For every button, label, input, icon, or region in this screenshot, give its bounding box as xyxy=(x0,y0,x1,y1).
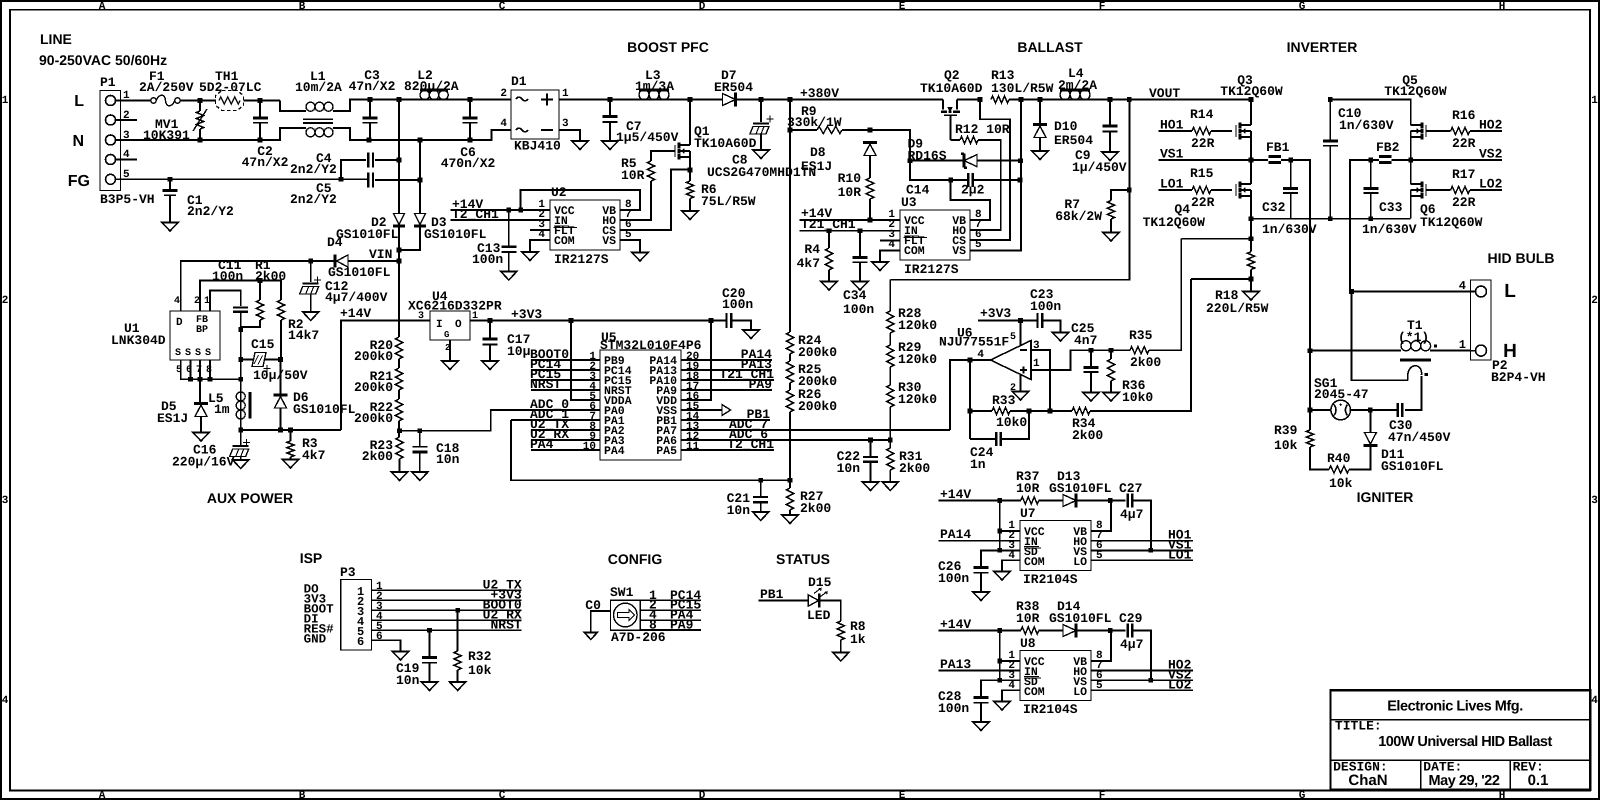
fuse F1 xyxy=(151,98,156,103)
resistor R15 xyxy=(1192,186,1211,193)
ic U5 STM32L010F4P6 box xyxy=(600,350,681,460)
phase dot T1 secondary xyxy=(1425,373,1428,376)
wire R4 top lead xyxy=(828,231,830,248)
junction C23 xyxy=(1018,318,1023,323)
wire R9 leads xyxy=(790,129,817,131)
svg-text:10R: 10R xyxy=(1016,611,1040,626)
transistor Q4 TK12Q60W xyxy=(1235,184,1237,196)
wire U7 VCC vertical xyxy=(981,501,1000,568)
svg-text:GS1010FL: GS1010FL xyxy=(293,402,356,417)
svg-text:L: L xyxy=(74,93,84,110)
svg-text:I: I xyxy=(436,319,443,331)
svg-text:1n/630V: 1n/630V xyxy=(1362,222,1417,237)
wire VIN to D4 xyxy=(348,260,399,262)
wire LO2 to R17 xyxy=(1470,189,1502,191)
svg-text:R33: R33 xyxy=(992,393,1016,408)
wire U2 FLT stub xyxy=(530,229,550,231)
svg-text:B: B xyxy=(299,790,306,800)
junction L5 top rail xyxy=(238,377,243,382)
capacitor C26 xyxy=(974,566,989,569)
wire VIN divider vertical xyxy=(398,261,400,332)
svg-text:10k0: 10k0 xyxy=(996,415,1027,430)
connector P1 pin 4 circle xyxy=(106,155,116,165)
ground at R31 xyxy=(882,482,898,491)
wire VS1 to T1 primary xyxy=(1310,350,1401,352)
svg-text:200k0: 200k0 xyxy=(354,349,393,364)
wire U6 plus input xyxy=(1031,350,1091,370)
svg-text:May 29, '22: May 29, '22 xyxy=(1428,773,1499,789)
wire VB to U3 pin8 xyxy=(951,180,990,220)
svg-text:COM: COM xyxy=(904,245,925,258)
svg-text:G: G xyxy=(444,330,449,340)
svg-text:200k0: 200k0 xyxy=(798,399,837,414)
capacitor C34 xyxy=(853,256,868,259)
diode D8 xyxy=(863,141,877,144)
wire node399 vertical L-to-D2 xyxy=(398,100,400,214)
wire R16 to HO2 xyxy=(1470,130,1502,132)
junction C14 left xyxy=(948,178,953,183)
resistor R38 xyxy=(1021,627,1039,634)
wire U8 pin1 stub xyxy=(1000,660,1020,662)
junction R7 tap xyxy=(1127,188,1132,193)
svg-text:C27: C27 xyxy=(1119,481,1142,496)
capacitor C30 xyxy=(1398,403,1403,417)
wire ADC_0 tap to U5 xyxy=(420,410,600,431)
wire SW1 common to ground xyxy=(591,611,611,633)
resistor R40 xyxy=(1329,466,1349,473)
wire plus node to R36 xyxy=(1091,349,1111,351)
wire R33 right xyxy=(1010,410,1050,412)
wire C34 stem xyxy=(859,231,861,257)
wire VB-VS vertical x1020 xyxy=(970,100,1021,251)
wire +14V U8 rail xyxy=(939,630,1021,632)
ground at C1 xyxy=(162,223,178,232)
svg-text:200k0: 200k0 xyxy=(798,345,837,360)
svg-text:GS1010FL: GS1010FL xyxy=(328,265,391,280)
wire U5 pin13 ADC_7 xyxy=(681,429,950,431)
wire C14 left lead xyxy=(951,179,969,181)
svg-text:UCS2G470MHD1TN: UCS2G470MHD1TN xyxy=(707,165,816,180)
wire R22-R23 node xyxy=(398,421,400,437)
wire Q5 source xyxy=(1410,137,1412,160)
svg-text:10k: 10k xyxy=(1274,438,1298,453)
wire U7 HO HO1 xyxy=(1091,540,1193,542)
svg-text:LO1: LO1 xyxy=(1168,548,1192,563)
wire C27 right to VS1 xyxy=(1132,501,1151,551)
svg-text:U3: U3 xyxy=(901,195,917,210)
svg-text:1k: 1k xyxy=(850,632,866,647)
svg-text:GS1010FL: GS1010FL xyxy=(1049,611,1112,626)
svg-text:D1: D1 xyxy=(511,74,527,89)
svg-text:2k00: 2k00 xyxy=(1130,355,1161,370)
wire P1 pin2 stub xyxy=(121,119,138,121)
wire R40 to D11 xyxy=(1349,446,1370,470)
diode D2 xyxy=(393,225,405,228)
resistor R13 xyxy=(991,96,1009,103)
wire LO1 to R15 xyxy=(1159,189,1193,191)
junction 3V3 at C20 xyxy=(709,318,714,323)
ic U4 XC6216 box xyxy=(430,311,470,340)
capacitor C24 xyxy=(996,432,1001,446)
wire C29 right to VS2 xyxy=(1132,631,1151,681)
svg-text:C32: C32 xyxy=(1262,200,1286,215)
svg-text:P3: P3 xyxy=(340,565,356,580)
svg-text:KBJ410: KBJ410 xyxy=(514,139,561,154)
svg-text:22R: 22R xyxy=(1452,136,1476,151)
wire R35 right up xyxy=(1149,239,1181,351)
junction C19 on NRST xyxy=(427,628,432,633)
transistor Q2 TK10A60D xyxy=(943,100,957,110)
junction N rail at C3 xyxy=(367,138,372,143)
svg-text:ChaN: ChaN xyxy=(1348,772,1387,789)
svg-text:1μ/450V: 1μ/450V xyxy=(1072,160,1127,175)
svg-text:GS1010FL: GS1010FL xyxy=(336,227,399,242)
ground at C25 xyxy=(1083,393,1099,402)
ic U2 IR2127S box xyxy=(550,200,620,250)
diode D13 xyxy=(1063,495,1076,507)
wire C5 right xyxy=(375,179,420,181)
svg-text:1: 1 xyxy=(1591,95,1598,107)
svg-text:PA9: PA9 xyxy=(749,377,773,392)
resistor R39 xyxy=(1306,430,1313,447)
junction rail Q3 drain xyxy=(1249,97,1254,102)
ic U1 LNK304D box xyxy=(170,311,220,360)
ground at D10 xyxy=(1032,151,1048,160)
svg-text:PA4: PA4 xyxy=(530,437,554,452)
svg-text:IR2104S: IR2104S xyxy=(1023,572,1078,587)
svg-text:HO2: HO2 xyxy=(1479,118,1503,133)
resistor R37 xyxy=(1021,497,1039,504)
wire U5 pin18 T21_CH1 xyxy=(681,379,774,381)
wire U8 VB pin8 xyxy=(1091,631,1111,662)
svg-text:0.1: 0.1 xyxy=(1528,772,1549,789)
wire Q3 source xyxy=(1250,137,1252,160)
wire FB2 left xyxy=(1350,160,1379,292)
junction L terminal node xyxy=(1349,289,1354,294)
ground at C9 xyxy=(1102,152,1118,161)
svg-text:COM: COM xyxy=(1024,556,1045,569)
svg-text:R4: R4 xyxy=(804,242,820,257)
svg-text:ES1J: ES1J xyxy=(157,411,188,426)
wire R31 ground lead xyxy=(889,470,891,482)
wire Q1 gate to R5 xyxy=(651,151,675,161)
wire VS2 left to FB2 xyxy=(1392,159,1411,161)
ground at R23 xyxy=(392,472,408,481)
junction aux at D6 xyxy=(278,428,283,433)
capacitor C12 xyxy=(303,282,319,284)
svg-text:TK12Q60W: TK12Q60W xyxy=(1220,84,1283,99)
capacitor C14 xyxy=(968,173,973,187)
wire U2 COM to ground xyxy=(530,240,550,252)
junction R1 top xyxy=(258,278,263,283)
svg-text:1: 1 xyxy=(2,95,9,107)
capacitor C25 xyxy=(1084,366,1099,369)
svg-text:NRST: NRST xyxy=(530,377,561,392)
svg-text:470n/X2: 470n/X2 xyxy=(441,156,496,171)
wire D1 pin3 to ground xyxy=(559,130,580,141)
wire U6 minus input xyxy=(1031,350,1050,411)
wire U5 pin12 ADC_6 xyxy=(681,439,890,441)
wire inverter bottom rail xyxy=(1251,218,1411,220)
junction VS1 node xyxy=(1249,158,1254,163)
svg-text:2n2/Y2: 2n2/Y2 xyxy=(290,162,337,177)
wire R13 right xyxy=(1009,99,1060,101)
junction ADC_6 at R30 xyxy=(888,438,893,443)
junction C34 node xyxy=(858,228,863,233)
junction VOUT at C9 xyxy=(1108,97,1113,102)
diode D3 xyxy=(414,225,426,228)
wire D11 anode xyxy=(1369,410,1371,433)
junction R18 bottom xyxy=(1249,277,1254,282)
capacitor C33 xyxy=(1363,187,1378,190)
wire Q1 source xyxy=(689,157,691,170)
wire R26 to tap xyxy=(789,412,791,488)
wire FG rail xyxy=(121,178,369,180)
ground at C21 xyxy=(753,512,769,521)
ground at R36 xyxy=(1103,393,1119,402)
svg-text:LED: LED xyxy=(807,608,831,623)
capacitor C2 xyxy=(253,117,268,120)
svg-text:4n7: 4n7 xyxy=(1074,333,1097,348)
connector P1 pin 3 circle xyxy=(106,135,116,145)
junction R32 on BOOT0 xyxy=(455,608,460,613)
resistor R35 xyxy=(1130,347,1149,354)
wire FB1 right xyxy=(1281,160,1310,351)
zener diode D9 xyxy=(961,152,967,169)
junction ADC_6 at C22 xyxy=(868,438,873,443)
capacitor C15 xyxy=(241,359,281,361)
wire C12 stem xyxy=(310,261,312,282)
svg-text:COM: COM xyxy=(1024,686,1045,699)
wire U7 IN PA14 xyxy=(939,540,1021,542)
wire U8 pin3 stub xyxy=(1000,679,1020,681)
svg-text:2k00: 2k00 xyxy=(362,449,393,464)
junction R4 node xyxy=(827,228,832,233)
svg-text:1: 1 xyxy=(562,88,569,100)
wire R21-R22 xyxy=(398,390,400,399)
svg-text:TK10A60D: TK10A60D xyxy=(920,81,983,96)
ground at R6 xyxy=(682,211,698,220)
wire +380V sense vertical x790 xyxy=(789,100,791,333)
wire R32 ground lead xyxy=(457,670,459,682)
svg-text:FG: FG xyxy=(68,173,90,190)
wire U6 gnd stub xyxy=(1020,375,1022,392)
wire CS sense path xyxy=(970,100,1010,241)
wire VS1 node down xyxy=(1309,351,1311,430)
wire R24-R25 xyxy=(789,354,791,361)
wire D10 top lead xyxy=(1039,100,1041,125)
resistor R18 xyxy=(1247,252,1254,270)
svg-text:130L/R5W: 130L/R5W xyxy=(991,81,1054,96)
ground at R8 xyxy=(833,653,849,662)
wire D8 to R10 xyxy=(869,156,871,179)
wire U8 VCC vertical xyxy=(981,631,1000,698)
svg-text:1n/630V: 1n/630V xyxy=(1339,118,1394,133)
svg-text:VS: VS xyxy=(952,245,966,258)
svg-text:2: 2 xyxy=(194,296,200,307)
ground at C19 xyxy=(422,682,438,691)
wire +3V3 to C23 xyxy=(978,320,1037,322)
wire N rail P1 to L1 xyxy=(121,128,307,140)
svg-text:LO2: LO2 xyxy=(1168,678,1192,693)
capacitor C27 xyxy=(1128,494,1133,508)
svg-text:100n: 100n xyxy=(212,269,243,284)
svg-text:R39: R39 xyxy=(1274,423,1298,438)
svg-text:C33: C33 xyxy=(1379,200,1403,215)
transformer T1 secondary xyxy=(1408,366,1422,381)
junction VB top node xyxy=(868,128,873,133)
svg-text:5: 5 xyxy=(975,239,982,251)
wire D10 anode to ground xyxy=(1039,138,1041,152)
wire L node to T1 secondary top xyxy=(1352,292,1409,381)
wire LED to R8 xyxy=(821,601,841,622)
junction pin6 rail xyxy=(188,377,193,382)
capacitor C18 xyxy=(412,446,427,448)
wire L3 to D7 xyxy=(669,99,723,101)
svg-text:U2: U2 xyxy=(551,185,567,200)
ground at U6 xyxy=(1013,392,1029,401)
ground at U2 COM xyxy=(522,252,538,261)
svg-text:R17: R17 xyxy=(1452,167,1475,182)
wire fuse to MV1 node xyxy=(180,100,216,102)
junction aux out at C16 xyxy=(238,428,243,433)
junction top rail x399 xyxy=(397,97,402,102)
wire U7 VS VS1 xyxy=(1091,549,1193,551)
resistor R20 xyxy=(395,337,402,359)
wire L4 to VOUT xyxy=(1090,99,1251,101)
svg-text:68k/2W: 68k/2W xyxy=(1055,209,1102,224)
wire U6 power stub xyxy=(1020,321,1022,347)
svg-text:120k0: 120k0 xyxy=(898,392,937,407)
svg-text:F: F xyxy=(1099,1,1106,13)
ground at C28 xyxy=(973,722,989,731)
ground at R32 xyxy=(450,682,466,691)
junction U2 VCC at C13 xyxy=(507,208,512,213)
svg-text:1μ5/450V: 1μ5/450V xyxy=(616,130,679,145)
wire R28 chain top xyxy=(889,280,891,311)
svg-text:(*1): (*1) xyxy=(1398,330,1429,345)
wire SW1 bit 2 PC15 xyxy=(640,609,701,611)
svg-text:4: 4 xyxy=(1591,695,1598,707)
svg-text:VS: VS xyxy=(602,235,616,248)
svg-text:100n: 100n xyxy=(843,302,874,317)
ground at C26 xyxy=(973,592,989,601)
svg-text:10k: 10k xyxy=(468,663,492,678)
svg-text:BALLAST: BALLAST xyxy=(1017,39,1083,55)
resistor R3 xyxy=(287,441,294,457)
svg-text:INVERTER: INVERTER xyxy=(1287,39,1358,55)
junction U8 VS C29 xyxy=(1149,678,1154,683)
wire D3 cathode down xyxy=(399,226,420,250)
capacitor C19 xyxy=(422,656,437,659)
junction VB U8 xyxy=(1108,628,1113,633)
svg-text:+3V3: +3V3 xyxy=(980,306,1011,321)
wire D6 top lead xyxy=(280,360,282,396)
svg-text:1m: 1m xyxy=(214,402,230,417)
wire R36 top lead xyxy=(1110,350,1112,359)
ground at U3 COM xyxy=(872,262,888,271)
ground at U2 VS xyxy=(632,253,648,262)
wire R12 right to U3 HO xyxy=(970,140,1001,230)
wire U1 source pins to rail xyxy=(181,360,241,379)
junction C5 right at x420 xyxy=(418,178,423,183)
svg-text:PA5: PA5 xyxy=(656,445,677,458)
wire U3 VCC xyxy=(800,219,901,221)
wire R25-R26 xyxy=(789,383,791,390)
svg-text:H: H xyxy=(1499,1,1506,13)
junction rail at D10 xyxy=(1038,97,1043,102)
junction C10 bottom rail xyxy=(1328,216,1333,221)
svg-text:A7D-206: A7D-206 xyxy=(611,630,666,645)
svg-text:RD16S: RD16S xyxy=(908,149,947,164)
resistor R33 xyxy=(992,407,1010,414)
wire D4 to U1 drain xyxy=(181,261,335,311)
capacitor C13 xyxy=(501,245,516,248)
ground at D5 xyxy=(193,433,209,442)
svg-text:14k7: 14k7 xyxy=(288,328,319,343)
svg-text:ER504: ER504 xyxy=(1054,133,1093,148)
ground at R4 xyxy=(821,282,837,291)
svg-text:S: S xyxy=(175,348,181,359)
svg-text:CONFIG: CONFIG xyxy=(608,551,663,567)
svg-text:3: 3 xyxy=(2,495,9,507)
ground at U4 xyxy=(442,361,458,370)
wire U5 pin7 ADC_1 xyxy=(511,419,600,421)
svg-text:2: 2 xyxy=(500,88,507,100)
svg-text:L: L xyxy=(1504,281,1516,302)
wire L5 through xyxy=(240,379,242,430)
wire R37 to D13 xyxy=(1039,500,1063,502)
svg-text:C34: C34 xyxy=(843,288,867,303)
svg-text:2k00: 2k00 xyxy=(800,501,831,516)
svg-text:D8: D8 xyxy=(810,145,826,160)
inductor L2 xyxy=(420,90,429,99)
ground at R3 xyxy=(283,460,299,469)
wire L rail P1 to fuse xyxy=(121,100,152,102)
wire U5 pin3 PC15 xyxy=(531,379,600,381)
wire U3 COM to ground xyxy=(880,250,900,262)
svg-text:B3P5-VH: B3P5-VH xyxy=(100,192,155,207)
wire R20-R21 xyxy=(398,359,400,368)
svg-text:2: 2 xyxy=(1591,295,1598,307)
ground at C17 xyxy=(482,361,498,370)
bridge rectifier D1 box xyxy=(511,90,559,139)
resistor R27 xyxy=(786,488,793,510)
junction 3V3 at U5 VDDA xyxy=(569,318,574,323)
phase dot T1 primary xyxy=(1434,344,1437,347)
wire U2 IN xyxy=(450,219,550,221)
wire SG1 left lead xyxy=(1310,409,1331,411)
wire through L4 xyxy=(1060,99,1090,101)
junction R36 node xyxy=(1109,348,1114,353)
svg-text:C29: C29 xyxy=(1119,611,1143,626)
svg-text:75L/R5W: 75L/R5W xyxy=(701,194,756,209)
svg-text:VIN: VIN xyxy=(369,247,392,262)
wire aux to +14V riser xyxy=(341,321,400,431)
wire C23 right to ground xyxy=(1042,321,1060,333)
svg-text:NRST: NRST xyxy=(490,617,521,632)
wire R10 to +14V line xyxy=(869,199,871,220)
wire R33 leads xyxy=(970,410,992,412)
wire R7 hook xyxy=(1111,190,1129,201)
inductor L4 xyxy=(1060,90,1070,100)
ground at C34 xyxy=(852,282,868,291)
wire Q1 drain xyxy=(689,100,691,146)
junction at C8 xyxy=(759,97,764,102)
capacitor C23 xyxy=(1038,313,1043,328)
svg-text:ER504: ER504 xyxy=(714,80,753,95)
wire R15 to Q4 gate xyxy=(1211,189,1232,191)
